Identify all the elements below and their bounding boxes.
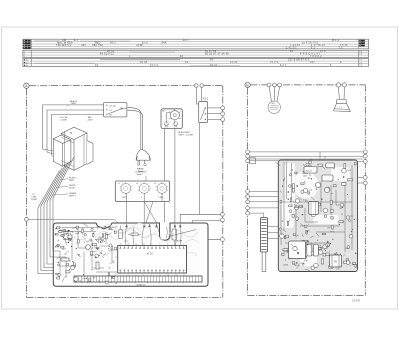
svg-text:17: 17 [120, 244, 122, 246]
microphone terminals [267, 83, 281, 87]
svg-text:730 110 5-2: 730 110 5-2 [56, 45, 72, 47]
svg-text:1: 1 [183, 244, 184, 246]
dense cluster top-left of PCB [55, 228, 71, 247]
boundary terminals left upper [246, 150, 250, 163]
svg-text:1k22: 1k22 [303, 199, 307, 201]
resistor R1 [128, 233, 141, 236]
svg-text:CS 970: CS 970 [352, 300, 361, 303]
svg-text:C58: C58 [300, 263, 303, 265]
chassis boundary right schematic bottom edge [248, 295, 366, 297]
boundary terminals left lower [246, 190, 250, 216]
svg-text:(B1): (B1) [122, 197, 126, 199]
svg-text:/WHT 1: /WHT 1 [69, 195, 77, 197]
svg-text:REC/PB: REC/PB [176, 240, 183, 242]
svg-text:T65: T65 [305, 201, 308, 203]
svg-text:13: 13 [135, 244, 137, 246]
svg-text:CODE: CODE [61, 120, 68, 122]
svg-text:90 52 97 37 34 36: 90 52 97 37 34 36 [205, 53, 229, 55]
svg-text:46: 46 [95, 65, 99, 67]
bus wires upper [250, 152, 364, 161]
svg-text:2739: 2739 [136, 45, 143, 47]
svg-text:AC127: AC127 [306, 169, 313, 172]
label COLOR CODE [60, 117, 68, 121]
svg-text:6 1: 6 1 [311, 47, 316, 49]
svg-text:9-1: 9-1 [74, 40, 79, 42]
right PCB outline [278, 160, 357, 272]
svg-text:90-2: 90-2 [110, 43, 116, 45]
svg-text:a-n-a: a-n-a [124, 240, 128, 242]
svg-text:11: 11 [143, 244, 145, 246]
wire S1 to board [180, 123, 221, 244]
table cell text [34, 40, 348, 67]
wiring table block 1 [23, 39, 369, 49]
right PCB dark speckles [281, 166, 356, 269]
svg-text:/BLUE: /BLUE [69, 188, 75, 190]
svg-text:50-8: 50-8 [142, 43, 148, 45]
transistor T2 right board [315, 175, 333, 193]
mains cord [128, 108, 143, 150]
svg-text:a3: a3 [154, 183, 156, 185]
lamp L2 [136, 182, 150, 199]
wires from left lower terminals to board [250, 191, 279, 217]
svg-text:.57: .57 [100, 251, 102, 253]
wiring table block 3 [23, 58, 369, 66]
svg-text:CONN 01: CONN 01 [136, 285, 146, 287]
svg-text:RUN/REC 1: RUN/REC 1 [136, 171, 148, 173]
label mains plug [137, 168, 146, 174]
svg-text:T44: T44 [339, 208, 342, 210]
svg-text:a2: a2 [136, 183, 138, 185]
svg-text:94: 94 [210, 60, 214, 62]
svg-text:T35: T35 [336, 268, 339, 270]
op-amp IC1 [118, 244, 187, 277]
svg-text:1k9: 1k9 [110, 248, 113, 250]
svg-text:M 1-1: M 1-1 [332, 40, 340, 42]
loudspeaker terminals [336, 83, 346, 87]
wire to right terminal 3 [358, 161, 364, 163]
chassis boundary right schematic right edge [364, 85, 366, 296]
svg-text:7 8 9 6.2: 7 8 9 6.2 [310, 56, 322, 58]
svg-text:94 27: 94 27 [210, 65, 218, 67]
right PCB component cluster [275, 161, 356, 271]
svg-text:307: 307 [81, 45, 86, 47]
chassis boundary left schematic bottom edge [26, 296, 222, 298]
svg-text:157: 157 [310, 62, 315, 64]
label above lamp box [136, 171, 148, 176]
svg-text:1k1: 1k1 [64, 254, 67, 256]
svg-text:4n723: 4n723 [295, 265, 300, 267]
capacitor C2 [172, 229, 177, 246]
wire entry arrowheads [125, 224, 181, 228]
drawing number [352, 300, 361, 303]
label BLACK/WHT [67, 100, 78, 107]
microphone leads [269, 87, 280, 102]
svg-text:/WHT: /WHT [71, 103, 77, 105]
svg-text:21 6: 21 6 [320, 51, 326, 53]
wiring table block 2 [23, 50, 369, 57]
left PCB outline [53, 223, 208, 286]
wires S1 to boundary terminals [208, 108, 221, 120]
chassis boundary left schematic right edge [204, 86, 223, 298]
svg-text:7: 7 [159, 244, 160, 246]
boundary terminals right upper [363, 150, 367, 163]
right PCB internal wires [281, 162, 352, 252]
IC2 tall package [309, 202, 319, 215]
capacitor C22 [313, 245, 318, 257]
capacitor C1 [119, 226, 123, 239]
wire from terminals down to S1 [196, 87, 201, 104]
svg-text:2.41 5.1: 2.41 5.1 [286, 47, 297, 49]
svg-text:31.42: 31.42 [230, 62, 238, 64]
primary wires to voltage selector [43, 105, 104, 157]
chassis boundary right schematic top edge [250, 84, 365, 86]
motor M1 [161, 109, 182, 129]
boundary terminals right mid [221, 212, 225, 241]
left PCB component cluster [55, 224, 117, 284]
svg-text:34: 34 [185, 62, 189, 64]
svg-text:6V85: 6V85 [90, 255, 94, 257]
boundary terminals right mid [363, 176, 367, 185]
svg-text:4n77: 4n77 [105, 281, 109, 283]
mains plug [136, 150, 150, 166]
node B boundary marker [245, 82, 250, 87]
chassis boundary right schematic left edge [247, 88, 249, 296]
svg-text:S1-1: S1-1 [203, 97, 209, 100]
svg-text:127: 127 [109, 110, 112, 112]
svg-text:1k8: 1k8 [64, 277, 67, 279]
wire loop entry [169, 230, 197, 237]
svg-text:1028: 1028 [303, 175, 307, 177]
svg-text:240V: 240V [88, 120, 94, 122]
svg-text:TP2: TP2 [82, 278, 85, 280]
svg-text:1k23: 1k23 [347, 170, 351, 172]
svg-text:POINT: POINT [31, 199, 38, 201]
boundary terminal left [25, 217, 121, 225]
left PCB internal wires [54, 228, 118, 277]
transformer T1 (isometric) [53, 127, 93, 170]
svg-text:C4: C4 [112, 261, 114, 263]
svg-text:240: 240 [109, 115, 112, 117]
wire board to lower terminal [182, 238, 221, 242]
label REC/PB [124, 240, 183, 242]
driver circle assembly [289, 241, 306, 259]
transistor T1 right board [304, 163, 335, 173]
lamp L3 [154, 182, 168, 199]
loudspeaker leads [339, 87, 345, 100]
loudspeaker LS1 [334, 100, 351, 112]
svg-text:a1: a1 [118, 183, 120, 185]
S1 terminal circles on boundary [221, 106, 225, 121]
transformer secondary wires [38, 157, 74, 274]
svg-text:34-7: 34-7 [183, 40, 189, 42]
table row labels [23, 40, 365, 67]
svg-text:36: 36 [290, 51, 294, 53]
right PCB white pockets [282, 163, 351, 266]
svg-text:227: 227 [63, 249, 66, 251]
svg-text:MIC: MIC [272, 103, 276, 105]
svg-text:75 2 9: 75 2 9 [270, 62, 279, 64]
lamp assembly box [115, 181, 169, 202]
chassis boundary left schematic top edge [29, 85, 194, 87]
svg-text:IC 01: IC 01 [147, 253, 153, 256]
svg-text:15: 15 [128, 244, 130, 246]
svg-text:48 52 9 12: 48 52 9 12 [100, 53, 114, 55]
motor lead wires [165, 129, 175, 223]
wire junctions on PCB top [125, 227, 181, 246]
svg-text:34 2.2: 34 2.2 [150, 65, 159, 67]
voltage selector VS1 [104, 102, 127, 117]
svg-text:46: 46 [180, 56, 184, 58]
slide potentiometer P1 [261, 218, 268, 272]
svg-text:8.2 1: 8.2 1 [280, 65, 287, 67]
switch S1 [199, 97, 209, 122]
decorative [75, 223, 199, 256]
svg-text:40 46: 40 46 [140, 62, 148, 64]
component box at boundary [250, 158, 256, 164]
microphone MIC1 [268, 101, 280, 113]
svg-text:/WHT: /WHT [69, 180, 75, 182]
capacitor C21 [307, 245, 312, 257]
lamp L1 [118, 182, 132, 199]
svg-text:157 8 AN 97 8 5: 157 8 AN 97 8 5 [288, 59, 310, 62]
svg-text:227: 227 [115, 227, 118, 229]
svg-text:Table 1: Table 1 [137, 174, 145, 176]
wire colour labels [31, 177, 76, 201]
svg-text:4n789: 4n789 [283, 265, 288, 267]
lamp wires down to board [127, 176, 162, 223]
label TAP [88, 116, 94, 121]
wires pot to board [267, 227, 285, 239]
svg-text:282 750: 282 750 [92, 45, 103, 47]
svg-text:9: 9 [151, 244, 152, 246]
label motor leads [178, 131, 193, 137]
svg-text:110 220: 110 220 [109, 105, 116, 107]
svg-text:84A: 84A [162, 42, 167, 45]
svg-text:5: 5 [167, 244, 168, 246]
svg-text:9V: 9V [334, 261, 337, 264]
capacitor C4 tall [189, 230, 201, 242]
svg-text:1084: 1084 [345, 248, 349, 250]
battery BT1 [330, 255, 342, 267]
svg-text:L40V: L40V [159, 197, 164, 199]
feedthrough terminals to switch S1 [195, 84, 204, 88]
svg-text:C38: C38 [327, 227, 330, 229]
chassis boundary left schematic left edge [25, 89, 27, 298]
svg-text:7.3: 7.3 [339, 47, 344, 49]
node A boundary marker [24, 83, 29, 88]
connector strip J1 [74, 276, 202, 287]
svg-text:C7: C7 [67, 252, 69, 254]
wires to right mid terminals [358, 178, 364, 184]
svg-text:GREY + 6.2 WH: GREY + 6.2 WH [178, 135, 193, 137]
svg-text:C4: C4 [87, 241, 89, 243]
